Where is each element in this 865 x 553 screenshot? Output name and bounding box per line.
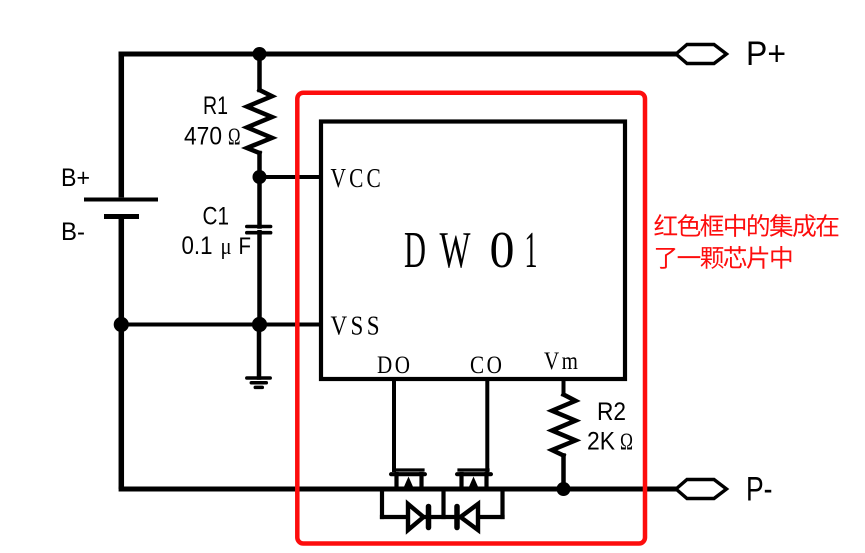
wire R1 bottom lead to VCC node (257, 153, 262, 177)
svg-text:B+: B+ (61, 164, 90, 192)
wire VCC node to pin VCC (260, 175, 322, 179)
wire C1 bottom lead to VSS rail (257, 232, 262, 325)
capacitor C1 top plate (247, 225, 271, 229)
resistor R2 zigzag body (552, 395, 576, 456)
wire diode branch middle riser (441, 489, 445, 517)
transistor Q1 body arrow (403, 477, 414, 489)
svg-text:Vm: Vm (544, 348, 581, 375)
svg-text:P+: P+ (746, 35, 786, 73)
battery BT1 negative plate (104, 214, 139, 219)
svg-text:B-: B- (61, 218, 85, 246)
svg-text:470: 470 (184, 123, 222, 151)
transistor Q1 source stub (394, 474, 398, 489)
svg-text:W: W (440, 222, 471, 279)
diode D1 cathode bar (426, 507, 432, 528)
node junction dot VSS rail / C1 / ground (252, 317, 267, 332)
wire diode branch left drop (380, 489, 384, 517)
transistor Q2 gate bar (459, 468, 488, 471)
op-amp U1 DW01 body box (321, 122, 625, 380)
ground bar 2 (251, 381, 266, 385)
wire VSS rail from battery branch to pin VSS (121, 323, 321, 327)
wire pin Vm lead down to R2 (562, 379, 566, 395)
diode D2 cathode bar (454, 507, 460, 528)
transistor Q1 gate bar (394, 468, 423, 471)
svg-text:VSS: VSS (331, 310, 384, 340)
annotation red chinese text line 1 (654, 214, 838, 237)
wire bottom rail to P- (119, 487, 677, 492)
ground bar 1 (247, 376, 270, 380)
svg-text:μ: μ (221, 234, 232, 260)
svg-text:2K: 2K (587, 428, 615, 456)
svg-text:R1: R1 (203, 92, 228, 120)
resistor R1 zigzag body (247, 90, 272, 153)
transistor Q1 drain stub (419, 474, 423, 489)
diode D2 triangle (461, 504, 479, 530)
ground bar 3 (255, 386, 262, 390)
annotation red box around integrated chip (297, 93, 645, 544)
svg-text:DO: DO (377, 352, 413, 379)
diode D1 triangle (408, 504, 424, 530)
terminal P- hexagon connector (676, 480, 727, 499)
capacitor C1 bottom plate (247, 231, 271, 235)
svg-text:P-: P- (746, 471, 773, 509)
wire diode rail (382, 515, 503, 519)
node junction dot VCC / R1 / C1 (253, 170, 267, 184)
transistor Q2 channel bar (457, 472, 491, 476)
ground stem (257, 325, 262, 378)
svg-text:R2: R2 (597, 398, 626, 426)
node junction dot P- rail / R2 (557, 482, 571, 496)
svg-text:VCC: VCC (331, 163, 385, 193)
node junction dot VSS rail left (114, 317, 129, 332)
transistor Q1 channel bar (391, 472, 425, 476)
svg-text:Ω: Ω (620, 430, 633, 456)
svg-text:F: F (239, 233, 252, 260)
wire left vertical battery branch lower (119, 219, 125, 489)
transistor Q2 drain stub (484, 474, 488, 489)
transistor Q2 source stub (459, 474, 463, 489)
wire left vertical battery branch upper (119, 52, 125, 198)
svg-text:1: 1 (525, 222, 538, 279)
wire pin CO lead down to Q2 gate (485, 379, 489, 470)
wire C1 top lead (257, 177, 262, 227)
svg-text:0: 0 (490, 222, 515, 279)
wire top rail B+ to P+ (119, 52, 677, 57)
wire R2 bottom lead to P- rail (561, 456, 566, 490)
svg-text:D: D (404, 222, 426, 279)
wire R1 top lead from top rail (257, 54, 262, 90)
terminal P+ hexagon connector (676, 45, 727, 64)
battery BT1 positive plate (84, 198, 158, 202)
svg-text:Ω: Ω (228, 125, 241, 151)
transistor Q2 body arrow (468, 477, 479, 489)
wire pin DO lead down to Q1 gate (392, 379, 396, 470)
svg-text:C1: C1 (203, 203, 230, 231)
annotation red chinese text line 2 (656, 246, 791, 269)
wire diode branch right drop (500, 489, 504, 517)
node junction dot top rail / R1 (253, 47, 267, 61)
svg-text:CO: CO (470, 352, 505, 379)
svg-text:0.1: 0.1 (182, 232, 213, 260)
